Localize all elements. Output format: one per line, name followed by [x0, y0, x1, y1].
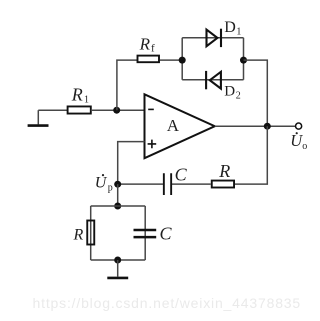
- terminal: output open circle: [296, 123, 302, 129]
- label R1: [71, 84, 89, 105]
- resistor R (parallel, vertical): [87, 221, 94, 245]
- svg-text:R: R: [139, 34, 151, 53]
- label D1: [224, 19, 241, 38]
- capacitor C (parallel, horizontal plates): [134, 230, 157, 237]
- svg-text:1: 1: [236, 27, 241, 38]
- resistor Rf: [138, 56, 160, 63]
- wire: output column down to series RC: [235, 126, 267, 184]
- node: parallel RC bottom: [114, 257, 121, 264]
- diode D2: [206, 71, 221, 89]
- op-amp U1 triangle: [145, 94, 215, 158]
- svg-text:D: D: [224, 83, 235, 99]
- svg-text:A: A: [167, 116, 180, 135]
- svg-text:C: C: [160, 224, 173, 244]
- svg-text:p: p: [108, 183, 113, 194]
- wire: left ground to R1: [38, 109, 67, 111]
- svg-text:f: f: [151, 43, 155, 55]
- node: inverting input junction: [113, 107, 120, 114]
- wire: diode box right to output column: [244, 60, 268, 126]
- label D2: [224, 83, 241, 101]
- label Up: [95, 174, 113, 194]
- capacitor C (series): [164, 173, 171, 195]
- op-amp plus sign: [148, 140, 157, 149]
- wire: R1 to op-amp inverting input: [91, 109, 145, 111]
- label Uo: [290, 131, 307, 152]
- wire: diode box frame: [182, 38, 243, 80]
- svg-text:2: 2: [236, 91, 241, 102]
- node: parallel RC top: [114, 203, 121, 210]
- svg-text:R: R: [218, 161, 230, 181]
- wire: series C to node Up: [118, 183, 163, 185]
- wire: junction up to Rf row: [117, 60, 137, 110]
- wire: node Up down to parallel RC top rail: [117, 184, 119, 206]
- resistor R1: [68, 106, 91, 113]
- ground (left): [28, 110, 49, 125]
- node: diode box right: [240, 57, 247, 64]
- svg-text:D: D: [224, 19, 236, 36]
- wire: non-inverting input: [118, 142, 145, 185]
- svg-text:R: R: [73, 227, 84, 244]
- wire: series R to series C: [172, 183, 211, 185]
- label Rf: [139, 34, 155, 54]
- wire: Rf to diode box left node: [160, 59, 182, 61]
- watermark: [33, 295, 302, 311]
- node: output junction: [264, 123, 271, 130]
- svg-text:R: R: [71, 84, 83, 104]
- resistor R (series): [212, 181, 234, 188]
- node Up: [114, 181, 121, 188]
- op-amp minus sign: [148, 108, 154, 110]
- svg-text:1: 1: [84, 94, 89, 105]
- node: diode box left: [179, 57, 186, 64]
- diode D1: [207, 29, 222, 47]
- svg-text:C: C: [175, 164, 188, 184]
- ground (bottom): [107, 260, 128, 278]
- svg-text:o: o: [302, 141, 307, 152]
- wire: parallel RC frame: [91, 206, 146, 260]
- svg-text:U: U: [95, 175, 108, 192]
- wire: op-amp output to terminal: [215, 125, 295, 127]
